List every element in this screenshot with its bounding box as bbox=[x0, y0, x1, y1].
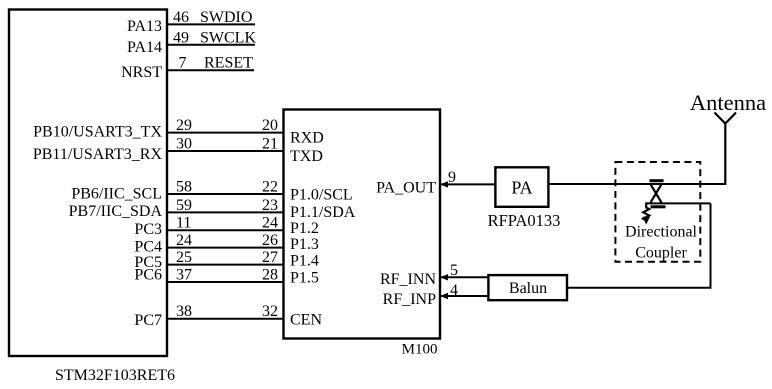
svg-text:23: 23 bbox=[262, 197, 278, 214]
svg-text:29: 29 bbox=[176, 117, 192, 134]
svg-text:11: 11 bbox=[176, 215, 191, 232]
svg-text:P1.1/SDA: P1.1/SDA bbox=[290, 204, 356, 221]
wire RX 30 to TXD 21 bbox=[167, 150, 284, 152]
svg-text:PA_OUT: PA_OUT bbox=[376, 180, 436, 197]
pin number 27 bbox=[262, 249, 278, 266]
svg-text:RF_INN: RF_INN bbox=[380, 271, 436, 288]
pin label PB10/USART3_TX bbox=[33, 124, 162, 141]
pin label P1.4 bbox=[290, 252, 319, 269]
pin number 58 bbox=[176, 178, 192, 195]
wire PC3 11 to 24 bbox=[167, 229, 284, 231]
pin number 21 bbox=[262, 135, 278, 152]
svg-text:SWCLK: SWCLK bbox=[200, 29, 256, 46]
wire PC4 24 to 26 bbox=[167, 247, 284, 249]
svg-text:P1.4: P1.4 bbox=[290, 252, 319, 269]
svg-text:25: 25 bbox=[176, 249, 192, 266]
pin number 59 bbox=[176, 197, 192, 214]
pin number 11 bbox=[176, 215, 191, 232]
wire PC5 25 to 27 bbox=[167, 264, 284, 266]
pin number 5 bbox=[450, 262, 458, 279]
wire PA_OUT pin 9 bbox=[440, 181, 495, 187]
svg-text:PB6/IIC_SCL: PB6/IIC_SCL bbox=[71, 186, 162, 203]
svg-text:24: 24 bbox=[262, 215, 278, 232]
balun B1 bbox=[488, 275, 567, 300]
directional coupler dashed box bbox=[615, 162, 700, 262]
svg-text:TXD: TXD bbox=[290, 148, 323, 165]
svg-text:Antenna: Antenna bbox=[690, 90, 766, 115]
svg-text:20: 20 bbox=[262, 117, 278, 134]
wire RF_INN pin 5 bbox=[440, 274, 488, 280]
svg-text:30: 30 bbox=[176, 135, 192, 152]
pin number 20 bbox=[262, 117, 278, 134]
svg-text:21: 21 bbox=[262, 135, 278, 152]
wire coupled port bbox=[646, 202, 710, 204]
svg-text:PA: PA bbox=[511, 178, 532, 198]
svg-text:RXD: RXD bbox=[290, 130, 324, 147]
label Directional bbox=[625, 224, 698, 241]
pin number 26 bbox=[262, 232, 278, 249]
net label RESET bbox=[204, 55, 253, 72]
module M100 box bbox=[284, 110, 441, 339]
wire PC7 38 to CEN 32 bbox=[167, 318, 284, 320]
svg-text:5: 5 bbox=[450, 262, 458, 279]
svg-text:37: 37 bbox=[176, 266, 192, 283]
wire SCL 58 to 22 bbox=[167, 193, 284, 195]
pin number 25 bbox=[176, 249, 192, 266]
wire PA output to antenna bbox=[548, 183, 725, 185]
svg-text:38: 38 bbox=[176, 303, 192, 320]
svg-text:RESET: RESET bbox=[204, 55, 253, 72]
svg-text:PC4: PC4 bbox=[134, 239, 162, 256]
pin label PA14 bbox=[127, 39, 162, 56]
pin number 32 bbox=[262, 303, 278, 320]
svg-text:Balun: Balun bbox=[509, 280, 547, 297]
svg-text:CEN: CEN bbox=[290, 311, 322, 328]
wire coupler to balun bbox=[567, 203, 711, 287]
pin number 9 bbox=[448, 169, 456, 186]
svg-text:PC3: PC3 bbox=[134, 221, 162, 238]
pin number 22 bbox=[262, 178, 278, 195]
pin number 7 bbox=[179, 55, 187, 72]
terminated port arrow bbox=[642, 202, 650, 224]
wire SWCLK bbox=[167, 44, 255, 46]
svg-text:46: 46 bbox=[173, 9, 189, 26]
svg-text:7: 7 bbox=[179, 55, 187, 72]
svg-text:RF_INP: RF_INP bbox=[383, 291, 436, 308]
pin label PC6 bbox=[134, 267, 162, 284]
svg-text:27: 27 bbox=[262, 249, 278, 266]
svg-text:26: 26 bbox=[262, 232, 278, 249]
pin number 30 bbox=[176, 135, 192, 152]
svg-text:SWDIO: SWDIO bbox=[200, 9, 252, 26]
pin label PB7/IIC_SDA bbox=[69, 203, 163, 220]
svg-text:PA13: PA13 bbox=[127, 18, 162, 35]
wire RF_INP pin 4 bbox=[440, 293, 488, 299]
svg-text:24: 24 bbox=[176, 232, 192, 249]
pin number 46 bbox=[173, 9, 189, 26]
svg-text:PB7/IIC_SDA: PB7/IIC_SDA bbox=[69, 203, 163, 220]
pin label PC4 bbox=[134, 239, 162, 256]
pin label PA13 bbox=[127, 18, 162, 35]
coupler symbol bbox=[650, 181, 666, 207]
svg-text:Coupler: Coupler bbox=[635, 245, 687, 262]
svg-text:32: 32 bbox=[262, 303, 278, 320]
svg-text:49: 49 bbox=[173, 29, 189, 46]
svg-text:STM32F103RET6: STM32F103RET6 bbox=[55, 367, 175, 384]
amplifier PA box bbox=[495, 167, 548, 207]
pin number 49 bbox=[173, 29, 189, 46]
svg-text:P1.5: P1.5 bbox=[290, 270, 319, 287]
svg-text:59: 59 bbox=[176, 197, 192, 214]
pin number 23 bbox=[262, 197, 278, 214]
pin label TXD bbox=[290, 148, 323, 165]
svg-text:P1.3: P1.3 bbox=[290, 236, 319, 253]
svg-text:58: 58 bbox=[176, 178, 192, 195]
net label SWDIO bbox=[200, 9, 252, 26]
svg-text:PB10/USART3_TX: PB10/USART3_TX bbox=[33, 124, 162, 141]
pin number 37 bbox=[176, 266, 192, 283]
label Antenna bbox=[690, 90, 766, 115]
wire SDA 59 to 23 bbox=[167, 211, 284, 213]
MCU U1 STM32F103RET6 box bbox=[9, 10, 167, 357]
pin number 38 bbox=[176, 303, 192, 320]
svg-text:P1.0/SCL: P1.0/SCL bbox=[290, 187, 353, 204]
wire TX 29 to RXD 20 bbox=[167, 132, 284, 134]
wire RESET bbox=[167, 69, 254, 71]
net label SWCLK bbox=[200, 29, 256, 46]
svg-text:28: 28 bbox=[262, 266, 278, 283]
pin number 4 bbox=[450, 282, 458, 299]
svg-text:Directional: Directional bbox=[625, 224, 698, 241]
pin label PB6/IIC_SCL bbox=[71, 186, 162, 203]
svg-text:PB11/USART3_RX: PB11/USART3_RX bbox=[33, 146, 163, 163]
svg-text:22: 22 bbox=[262, 178, 278, 195]
pin label P1.2 bbox=[290, 220, 319, 237]
wire PC6 37 to 28 bbox=[167, 281, 284, 283]
pin label P1.3 bbox=[290, 236, 319, 253]
svg-text:PA14: PA14 bbox=[127, 39, 162, 56]
pin label NRST bbox=[121, 64, 162, 81]
label M100 bbox=[402, 342, 438, 358]
pin label RF_INP bbox=[383, 291, 436, 308]
svg-text:NRST: NRST bbox=[121, 64, 162, 81]
pin number 24 bbox=[176, 232, 192, 249]
label Coupler bbox=[635, 245, 687, 262]
pin label P1.0/SCL bbox=[290, 187, 353, 204]
antenna ANT1 bbox=[715, 113, 737, 186]
svg-text:4: 4 bbox=[450, 282, 458, 299]
pin label RF_INN bbox=[380, 271, 436, 288]
label STM32F103RET6 bbox=[55, 367, 175, 384]
pin label PB11/USART3_RX bbox=[33, 146, 163, 163]
pin label CEN bbox=[290, 311, 322, 328]
svg-text:M100: M100 bbox=[402, 342, 438, 358]
svg-text:P1.2: P1.2 bbox=[290, 220, 319, 237]
pin label P1.1/SDA bbox=[290, 204, 356, 221]
pin number 24 bbox=[262, 215, 278, 232]
svg-text:PC6: PC6 bbox=[134, 267, 162, 284]
label RFPA0133 bbox=[488, 211, 561, 230]
pin label RXD bbox=[290, 130, 324, 147]
pin label PC5 bbox=[134, 254, 162, 271]
pin number 28 bbox=[262, 266, 278, 283]
svg-text:RFPA0133: RFPA0133 bbox=[488, 211, 561, 230]
pin label PA_OUT bbox=[376, 180, 436, 197]
pin label P1.5 bbox=[290, 270, 319, 287]
wire SWDIO bbox=[167, 23, 255, 25]
pin label PC7 bbox=[134, 312, 162, 329]
pin label PC3 bbox=[134, 221, 162, 238]
svg-text:9: 9 bbox=[448, 169, 456, 186]
pin number 29 bbox=[176, 117, 192, 134]
svg-text:PC7: PC7 bbox=[134, 312, 162, 329]
